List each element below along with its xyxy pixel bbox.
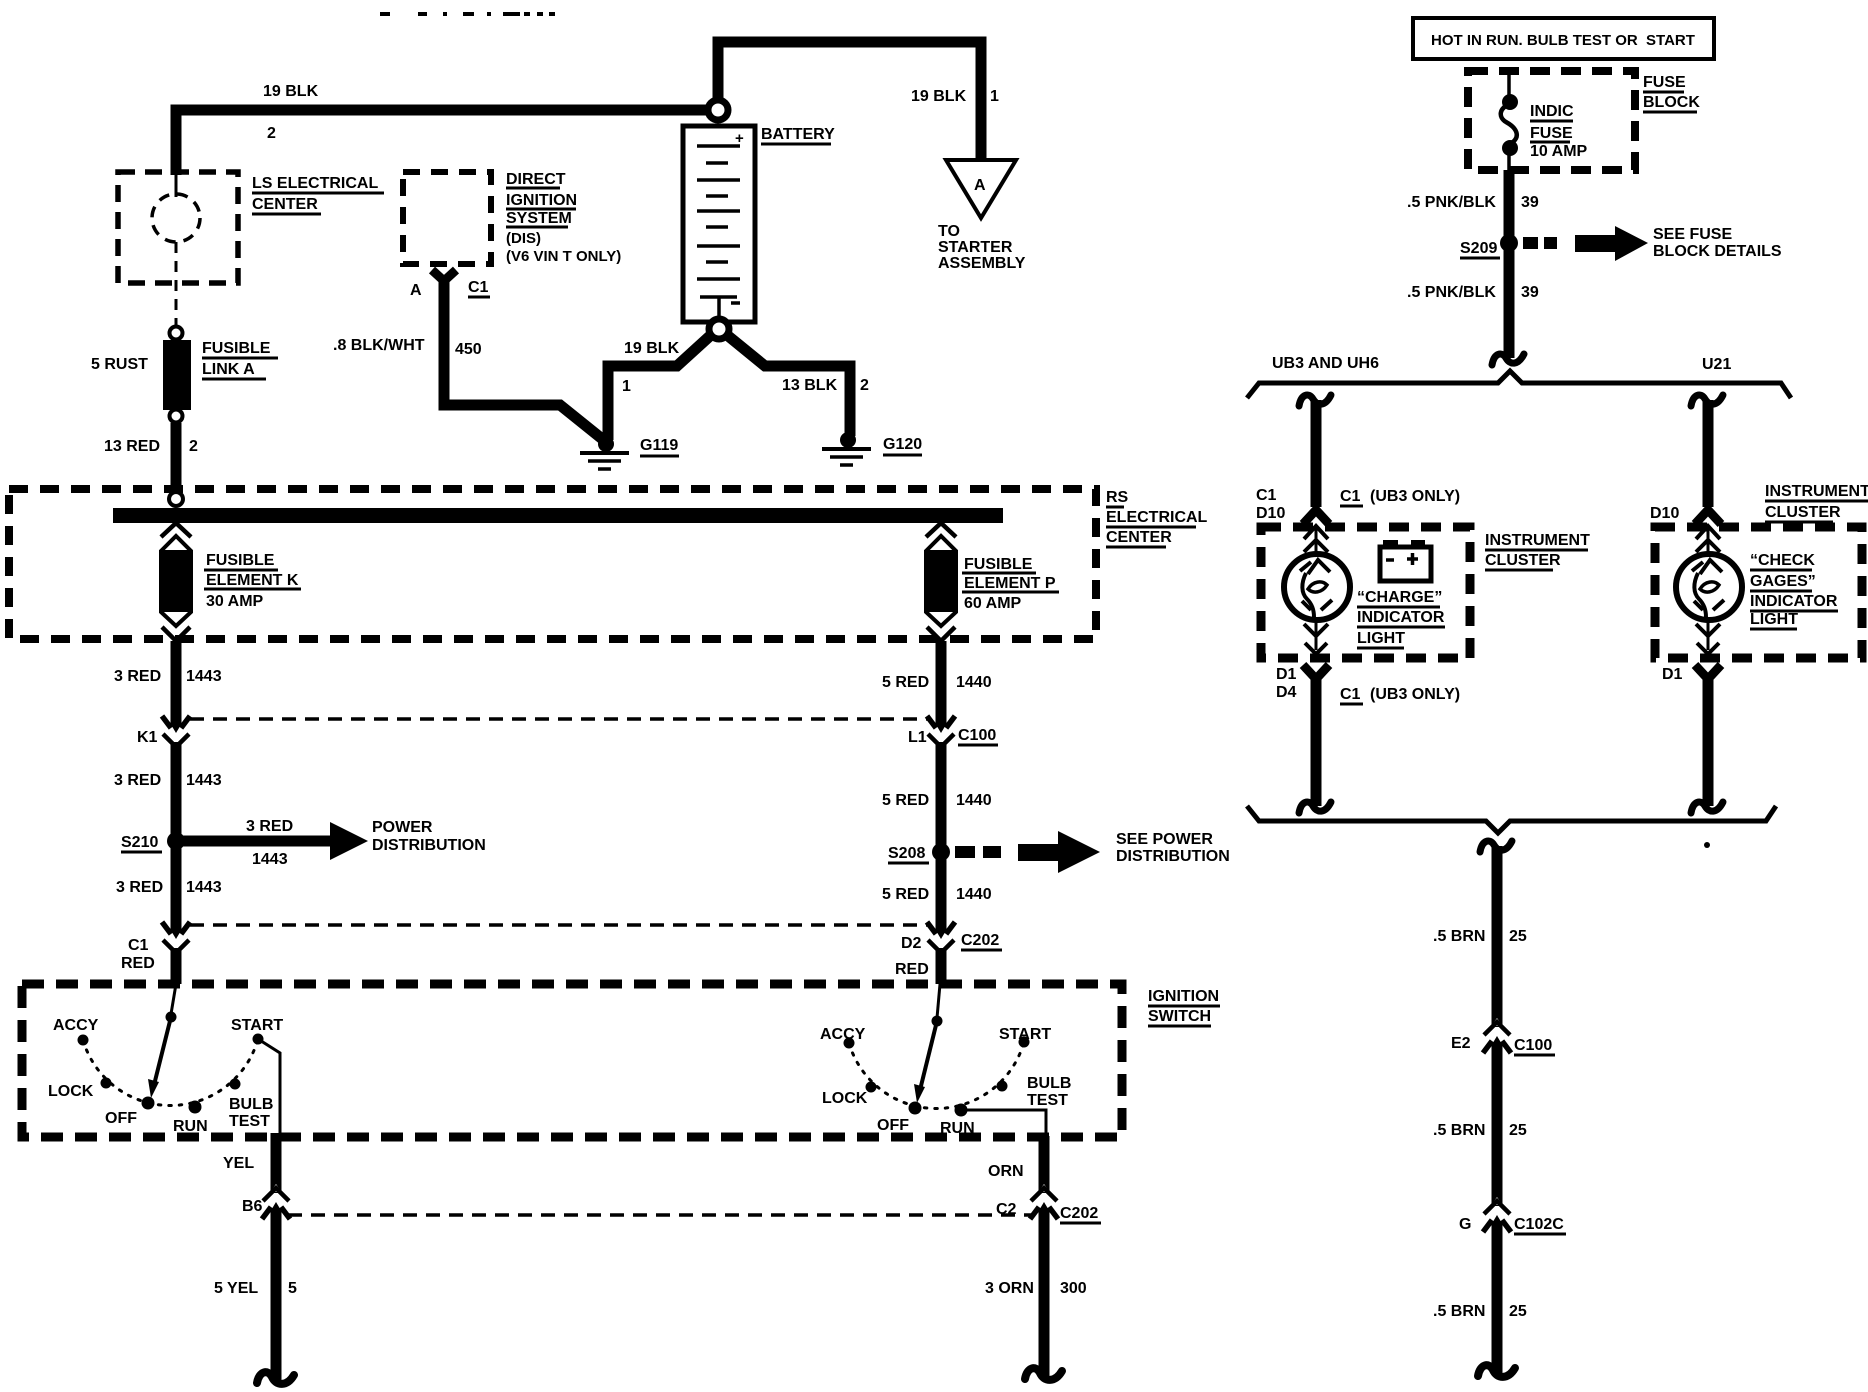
svg-text:L1: L1 (908, 729, 927, 746)
svg-text:13 BLK: 13 BLK (782, 377, 838, 394)
svg-text:G: G (1459, 1216, 1471, 1233)
svg-text:S209: S209 (1460, 240, 1497, 257)
svg-text:RUN: RUN (173, 1118, 208, 1135)
svg-text:ACCY: ACCY (820, 1026, 866, 1043)
svg-text:FUSIBLE: FUSIBLE (964, 556, 1033, 573)
svg-text:STARTER: STARTER (938, 239, 1013, 256)
svg-text:39: 39 (1521, 194, 1539, 211)
svg-text:3 RED: 3 RED (246, 818, 293, 835)
svg-text:(DIS): (DIS) (506, 230, 541, 247)
svg-text:.5 BRN: .5 BRN (1433, 928, 1485, 945)
svg-text:C1: C1 (1340, 488, 1361, 505)
svg-text:5: 5 (288, 1280, 297, 1297)
svg-text:2: 2 (189, 438, 198, 455)
svg-text:UB3 AND UH6: UB3 AND UH6 (1272, 355, 1379, 372)
svg-text:TO: TO (938, 223, 960, 240)
svg-text:RED: RED (121, 955, 155, 972)
svg-text:C1: C1 (1340, 686, 1361, 703)
svg-text:START: START (999, 1026, 1051, 1043)
svg-text:3 RED: 3 RED (116, 879, 163, 896)
svg-text:2: 2 (267, 125, 276, 142)
svg-text:1440: 1440 (956, 886, 992, 903)
svg-text:5 RED: 5 RED (882, 674, 929, 691)
svg-text:1443: 1443 (252, 851, 288, 868)
svg-text:C1: C1 (1256, 487, 1277, 504)
svg-text:(UB3 ONLY): (UB3 ONLY) (1370, 686, 1460, 703)
svg-text:19 BLK: 19 BLK (911, 88, 967, 105)
svg-text:19 BLK: 19 BLK (624, 340, 680, 357)
svg-text:U21: U21 (1702, 356, 1731, 373)
svg-text:BATTERY: BATTERY (761, 126, 835, 143)
svg-text:IGNITION: IGNITION (506, 192, 577, 209)
svg-text:3 RED: 3 RED (114, 668, 161, 685)
svg-text:D2: D2 (901, 935, 922, 952)
svg-text:C100: C100 (958, 727, 996, 744)
svg-text:LOCK: LOCK (48, 1083, 94, 1100)
svg-text:.5 PNK/BLK: .5 PNK/BLK (1407, 284, 1496, 301)
svg-text:2: 2 (860, 377, 869, 394)
svg-text:10 AMP: 10 AMP (1530, 143, 1588, 160)
svg-text:FUSE: FUSE (1643, 74, 1686, 91)
svg-text:(UB3 ONLY): (UB3 ONLY) (1370, 488, 1460, 505)
svg-text:LS ELECTRICAL: LS ELECTRICAL (252, 175, 378, 192)
svg-text:D4: D4 (1276, 684, 1297, 701)
svg-text:DISTRIBUTION: DISTRIBUTION (1116, 848, 1230, 865)
svg-text:INSTRUMENT: INSTRUMENT (1765, 483, 1868, 500)
svg-text:D1: D1 (1276, 666, 1297, 683)
svg-text:TEST: TEST (1027, 1092, 1068, 1109)
svg-text:INDICATOR: INDICATOR (1357, 609, 1445, 626)
svg-text:C1: C1 (468, 279, 489, 296)
svg-text:5 YEL: 5 YEL (214, 1280, 258, 1297)
svg-text:“CHARGE”: “CHARGE” (1357, 589, 1442, 606)
svg-text:C202: C202 (1060, 1205, 1098, 1222)
svg-text:ORN: ORN (988, 1163, 1024, 1180)
svg-text:CLUSTER: CLUSTER (1765, 504, 1841, 521)
svg-text:CENTER: CENTER (1106, 529, 1172, 546)
svg-text:POWER: POWER (372, 819, 433, 836)
svg-text:1: 1 (622, 378, 631, 395)
svg-text:25: 25 (1509, 928, 1527, 945)
svg-text:K1: K1 (137, 729, 158, 746)
svg-text:DISTRIBUTION: DISTRIBUTION (372, 837, 486, 854)
svg-text:G120: G120 (883, 436, 922, 453)
svg-text:RED: RED (895, 961, 929, 978)
svg-text:BULB: BULB (1027, 1075, 1071, 1092)
svg-text:OFF: OFF (105, 1110, 137, 1127)
svg-text:1443: 1443 (186, 879, 222, 896)
svg-text:ELECTRICAL: ELECTRICAL (1106, 509, 1208, 526)
svg-text:(V6 VIN T ONLY): (V6 VIN T ONLY) (506, 248, 621, 265)
svg-text:DIRECT: DIRECT (506, 171, 566, 188)
svg-text:S210: S210 (121, 834, 158, 851)
svg-text:INDIC: INDIC (1530, 103, 1574, 120)
svg-text:D10: D10 (1650, 505, 1679, 522)
svg-text:START: START (231, 1017, 283, 1034)
svg-text:GAGES”: GAGES” (1750, 573, 1816, 590)
svg-text:30 AMP: 30 AMP (206, 593, 264, 610)
svg-text:G119: G119 (640, 437, 678, 454)
svg-text:39: 39 (1521, 284, 1539, 301)
svg-text:INDICATOR: INDICATOR (1750, 593, 1838, 610)
svg-text:TEST: TEST (229, 1113, 270, 1130)
svg-text:OFF: OFF (877, 1117, 909, 1134)
svg-text:IGNITION: IGNITION (1148, 988, 1219, 1005)
svg-text:450: 450 (455, 341, 482, 358)
svg-text:HOT IN RUN. BULB TEST OR STAR: HOT IN RUN. BULB TEST OR START (1431, 32, 1695, 49)
svg-text:13 RED: 13 RED (104, 438, 160, 455)
svg-text:60 AMP: 60 AMP (964, 595, 1022, 612)
svg-text:.8 BLK/WHT: .8 BLK/WHT (333, 337, 425, 354)
svg-text:FUSIBLE: FUSIBLE (206, 552, 275, 569)
svg-text:5 RUST: 5 RUST (91, 356, 148, 373)
svg-text:YEL: YEL (223, 1155, 254, 1172)
svg-text:LIGHT: LIGHT (1750, 611, 1798, 628)
svg-text:RUN: RUN (940, 1120, 975, 1137)
svg-text:300: 300 (1060, 1280, 1087, 1297)
svg-text:FUSIBLE: FUSIBLE (202, 340, 271, 357)
svg-text:FUSE: FUSE (1530, 125, 1573, 142)
svg-text:CENTER: CENTER (252, 196, 318, 213)
svg-text:5 RED: 5 RED (882, 886, 929, 903)
svg-text:A: A (410, 282, 422, 299)
svg-text:LINK A: LINK A (202, 361, 255, 378)
svg-text:.5 BRN: .5 BRN (1433, 1303, 1485, 1320)
svg-text:1443: 1443 (186, 772, 222, 789)
svg-text:.5 BRN: .5 BRN (1433, 1122, 1485, 1139)
svg-text:LOCK: LOCK (822, 1090, 868, 1107)
svg-text:SEE FUSE: SEE FUSE (1653, 226, 1732, 243)
svg-text:BLOCK DETAILS: BLOCK DETAILS (1653, 243, 1782, 260)
svg-text:1443: 1443 (186, 668, 222, 685)
svg-text:SEE POWER: SEE POWER (1116, 831, 1213, 848)
svg-text:D10: D10 (1256, 505, 1285, 522)
svg-text:ELEMENT P: ELEMENT P (964, 575, 1056, 592)
svg-text:D1: D1 (1662, 666, 1683, 683)
svg-text:ELEMENT K: ELEMENT K (206, 572, 299, 589)
svg-text:BLOCK: BLOCK (1643, 94, 1700, 111)
svg-text:ACCY: ACCY (53, 1017, 99, 1034)
svg-text:S208: S208 (888, 845, 925, 862)
svg-text:SWITCH: SWITCH (1148, 1008, 1211, 1025)
svg-text:3 ORN: 3 ORN (985, 1280, 1034, 1297)
svg-text:E2: E2 (1451, 1035, 1471, 1052)
svg-text:LIGHT: LIGHT (1357, 630, 1405, 647)
svg-text:ASSEMBLY: ASSEMBLY (938, 255, 1026, 272)
svg-text:“CHECK: “CHECK (1750, 552, 1815, 569)
svg-text:C202: C202 (961, 932, 999, 949)
svg-text:BULB: BULB (229, 1096, 273, 1113)
svg-text:3 RED: 3 RED (114, 772, 161, 789)
svg-text:RS: RS (1106, 489, 1129, 506)
svg-text:.5 PNK/BLK: .5 PNK/BLK (1407, 194, 1496, 211)
svg-text:25: 25 (1509, 1303, 1527, 1320)
svg-text:1440: 1440 (956, 792, 992, 809)
svg-text:INSTRUMENT: INSTRUMENT (1485, 532, 1590, 549)
svg-text:C1: C1 (128, 937, 149, 954)
svg-text:19 BLK: 19 BLK (263, 83, 319, 100)
svg-text:A: A (974, 177, 986, 194)
svg-text:25: 25 (1509, 1122, 1527, 1139)
svg-text:CLUSTER: CLUSTER (1485, 552, 1561, 569)
svg-text:C102C: C102C (1514, 1216, 1564, 1233)
svg-text:1: 1 (990, 88, 999, 105)
svg-text:5 RED: 5 RED (882, 792, 929, 809)
svg-text:1440: 1440 (956, 674, 992, 691)
svg-text:SYSTEM: SYSTEM (506, 210, 572, 227)
svg-text:C100: C100 (1514, 1037, 1552, 1054)
svg-text:C2: C2 (996, 1201, 1017, 1218)
svg-text:B6: B6 (242, 1198, 263, 1215)
